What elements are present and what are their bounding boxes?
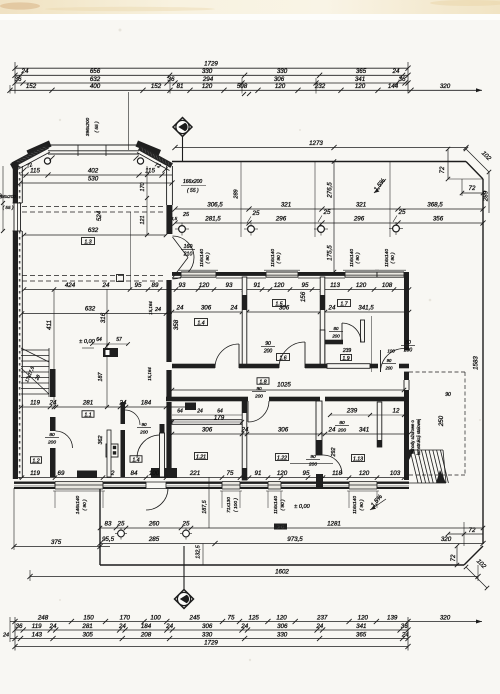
- svg-text:24: 24: [392, 68, 400, 75]
- svg-text:64: 64: [96, 337, 102, 343]
- svg-text:303: 303: [277, 524, 285, 529]
- svg-text:187,5: 187,5: [202, 499, 208, 513]
- svg-text:100: 100: [387, 349, 395, 354]
- svg-text:1.7: 1.7: [340, 301, 348, 307]
- svg-text:64: 64: [177, 409, 183, 415]
- svg-text:144: 144: [388, 83, 399, 90]
- svg-text:305: 305: [83, 631, 94, 638]
- svg-text:200: 200: [331, 333, 340, 338]
- svg-text:116x140: 116x140: [384, 249, 390, 267]
- svg-text:24: 24: [49, 623, 57, 630]
- svg-text:( 100 ): ( 100 ): [233, 498, 239, 512]
- svg-text:25: 25: [182, 212, 190, 218]
- svg-text:1.13: 1.13: [353, 456, 363, 462]
- svg-text:25: 25: [182, 520, 190, 527]
- svg-text:1.4: 1.4: [197, 320, 204, 326]
- svg-text:90: 90: [256, 386, 262, 391]
- svg-text:1.5: 1.5: [275, 301, 282, 307]
- svg-text:90: 90: [141, 422, 147, 427]
- svg-text:120: 120: [199, 282, 210, 289]
- svg-text:36: 36: [0, 193, 4, 199]
- svg-text:69: 69: [58, 470, 65, 477]
- svg-text:530: 530: [88, 176, 99, 183]
- svg-text:362: 362: [98, 436, 104, 445]
- svg-text:365: 365: [356, 631, 367, 638]
- svg-text:294: 294: [202, 76, 214, 83]
- svg-text:120: 120: [277, 470, 288, 477]
- svg-text:200: 200: [139, 429, 148, 434]
- svg-text:( 55 ): ( 55 ): [94, 121, 100, 133]
- svg-text:116x140: 116x140: [349, 249, 355, 267]
- svg-text:306,5: 306,5: [207, 201, 223, 208]
- svg-text:330: 330: [202, 631, 213, 638]
- svg-text:81: 81: [177, 83, 184, 90]
- svg-text:( 90 ): ( 90 ): [205, 252, 211, 264]
- svg-text:365: 365: [356, 68, 367, 75]
- svg-text:71x130: 71x130: [226, 497, 232, 513]
- svg-text:95: 95: [303, 470, 310, 477]
- svg-text:24: 24: [230, 304, 238, 311]
- svg-text:116x140: 116x140: [273, 496, 279, 514]
- svg-text:24: 24: [328, 426, 336, 433]
- svg-text:24: 24: [102, 282, 110, 289]
- svg-text:80: 80: [405, 340, 411, 346]
- svg-text:200: 200: [385, 365, 394, 370]
- svg-text:320: 320: [441, 536, 452, 543]
- svg-text:90: 90: [265, 341, 271, 347]
- svg-text:139: 139: [387, 614, 398, 621]
- svg-text:320: 320: [440, 83, 451, 90]
- svg-text:24: 24: [154, 307, 161, 313]
- svg-text:120: 120: [358, 614, 369, 621]
- svg-text:120: 120: [276, 614, 287, 621]
- svg-text:1583: 1583: [473, 356, 480, 370]
- svg-text:108: 108: [382, 282, 393, 289]
- svg-text:90: 90: [387, 358, 392, 363]
- svg-text:132,5: 132,5: [196, 544, 202, 558]
- svg-text:119: 119: [30, 399, 40, 406]
- svg-text:330: 330: [277, 631, 288, 638]
- svg-text:72: 72: [469, 185, 476, 192]
- svg-text:306: 306: [201, 304, 212, 311]
- svg-text:24: 24: [165, 623, 173, 630]
- svg-text:321: 321: [281, 201, 291, 208]
- svg-text:84: 84: [131, 470, 138, 477]
- svg-text:1.21: 1.21: [196, 454, 206, 460]
- svg-text:25: 25: [398, 209, 406, 216]
- svg-text:1.3: 1.3: [84, 239, 91, 245]
- svg-text:260: 260: [148, 520, 160, 527]
- svg-text:396x200: 396x200: [85, 117, 91, 136]
- svg-text:296: 296: [275, 215, 287, 222]
- svg-text:296: 296: [353, 215, 365, 222]
- svg-text:24: 24: [2, 632, 9, 638]
- svg-text:72: 72: [450, 554, 457, 561]
- svg-text:80: 80: [334, 326, 339, 331]
- svg-text:57: 57: [116, 337, 122, 343]
- svg-text:306: 306: [278, 426, 289, 433]
- svg-text:239: 239: [346, 408, 358, 415]
- svg-text:25: 25: [117, 520, 125, 527]
- svg-text:24: 24: [21, 68, 29, 75]
- svg-text:91: 91: [255, 470, 262, 477]
- svg-text:1.22: 1.22: [277, 455, 287, 461]
- svg-text:184: 184: [141, 623, 152, 630]
- svg-text:250: 250: [438, 415, 445, 427]
- svg-text:276,5: 276,5: [327, 182, 334, 199]
- svg-text:116x140: 116x140: [270, 249, 276, 267]
- svg-text:119: 119: [30, 470, 40, 477]
- svg-text:24: 24: [49, 399, 57, 406]
- svg-text:150: 150: [83, 614, 94, 621]
- svg-text:( 90 ): ( 90 ): [355, 252, 361, 264]
- svg-text:330: 330: [277, 68, 288, 75]
- svg-text:24: 24: [118, 623, 126, 630]
- svg-text:232: 232: [314, 83, 326, 90]
- svg-text:1729: 1729: [204, 639, 218, 646]
- svg-text:118: 118: [332, 470, 342, 477]
- svg-text:281: 281: [81, 623, 92, 630]
- svg-text:316: 316: [100, 312, 107, 323]
- svg-text:632: 632: [85, 306, 96, 313]
- svg-text:306: 306: [274, 76, 285, 83]
- svg-text:90: 90: [445, 392, 451, 398]
- svg-text:973,5: 973,5: [287, 536, 303, 543]
- svg-text:375: 375: [51, 539, 62, 546]
- svg-text:156: 156: [300, 291, 307, 302]
- svg-text:91: 91: [254, 282, 261, 289]
- svg-text:632: 632: [88, 227, 99, 234]
- svg-text:36: 36: [15, 76, 22, 83]
- svg-text:36: 36: [401, 623, 408, 630]
- svg-text:341: 341: [356, 623, 366, 630]
- svg-text:221: 221: [189, 470, 200, 477]
- svg-text:24: 24: [328, 304, 336, 311]
- svg-text:93: 93: [179, 282, 186, 289]
- svg-text:103: 103: [390, 470, 401, 477]
- svg-text:400: 400: [90, 83, 101, 90]
- svg-text:160: 160: [184, 244, 193, 250]
- svg-text:292: 292: [331, 448, 337, 458]
- svg-text:95: 95: [302, 282, 309, 289]
- svg-text:120: 120: [359, 470, 370, 477]
- svg-text:1.8: 1.8: [259, 379, 266, 385]
- svg-text:170: 170: [120, 614, 131, 621]
- svg-text:1729: 1729: [204, 61, 218, 68]
- svg-text:143: 143: [32, 631, 43, 638]
- svg-text:100: 100: [150, 614, 161, 621]
- svg-text:115: 115: [145, 168, 155, 175]
- svg-text:116x140: 116x140: [352, 496, 358, 514]
- svg-text:358: 358: [173, 319, 180, 330]
- svg-text:208: 208: [140, 631, 152, 638]
- svg-text:( 90 ): ( 90 ): [390, 252, 396, 264]
- svg-text:95,5: 95,5: [102, 536, 115, 543]
- svg-text:( 55 ): ( 55 ): [187, 188, 199, 194]
- svg-text:285: 285: [148, 536, 160, 543]
- svg-text:90: 90: [310, 454, 316, 460]
- svg-text:120: 120: [275, 83, 286, 90]
- svg-text:200: 200: [254, 393, 263, 398]
- svg-text:36: 36: [16, 623, 23, 630]
- svg-text:411: 411: [46, 320, 53, 330]
- svg-text:24: 24: [240, 623, 248, 630]
- svg-text:25: 25: [252, 210, 260, 217]
- svg-text:15,164: 15,164: [148, 301, 153, 315]
- svg-text:152: 152: [151, 83, 162, 90]
- svg-text:166x200: 166x200: [183, 179, 202, 185]
- svg-text:200: 200: [337, 427, 346, 433]
- svg-text:1.2: 1.2: [32, 458, 39, 464]
- svg-text:( 55 ): ( 55 ): [3, 205, 14, 210]
- svg-text:24: 24: [176, 304, 184, 311]
- svg-text:184: 184: [141, 399, 152, 406]
- svg-text:524: 524: [96, 210, 103, 221]
- svg-text:12: 12: [393, 408, 400, 415]
- svg-text:321: 321: [356, 201, 366, 208]
- svg-text:25: 25: [323, 209, 331, 216]
- svg-text:289: 289: [483, 190, 490, 202]
- svg-text:306: 306: [277, 623, 288, 630]
- svg-text:402: 402: [88, 168, 99, 175]
- svg-text:239: 239: [342, 348, 352, 354]
- svg-text:632: 632: [90, 76, 101, 83]
- svg-text:120: 120: [274, 282, 285, 289]
- svg-text:281,5: 281,5: [204, 215, 221, 222]
- svg-text:1.6: 1.6: [279, 355, 286, 361]
- svg-text:306: 306: [202, 623, 213, 630]
- svg-text:341: 341: [355, 76, 365, 83]
- svg-text:83: 83: [105, 520, 112, 527]
- svg-text:89: 89: [152, 282, 159, 289]
- svg-text:146x140: 146x140: [75, 495, 81, 514]
- svg-text:36: 36: [399, 76, 406, 83]
- svg-text:341,5: 341,5: [358, 304, 374, 311]
- svg-text:245: 245: [189, 614, 201, 621]
- svg-text:1.9: 1.9: [342, 356, 349, 362]
- svg-text:368,5: 368,5: [427, 201, 443, 208]
- svg-text:330: 330: [202, 68, 213, 75]
- svg-text:120: 120: [202, 83, 213, 90]
- svg-text:200: 200: [263, 348, 273, 354]
- svg-text:( 90 ): ( 90 ): [280, 499, 286, 511]
- svg-text:424: 424: [65, 282, 76, 289]
- svg-text:200: 200: [308, 461, 317, 467]
- svg-text:170: 170: [140, 183, 146, 192]
- svg-text:187: 187: [98, 372, 104, 382]
- svg-text:115: 115: [30, 168, 40, 175]
- svg-text:72: 72: [469, 527, 476, 534]
- svg-text:75: 75: [227, 470, 234, 477]
- svg-text:± 0,00: ± 0,00: [294, 504, 310, 510]
- svg-text:113: 113: [330, 282, 340, 289]
- svg-text:95: 95: [135, 282, 142, 289]
- svg-text:15,164: 15,164: [147, 367, 152, 381]
- svg-text:237: 237: [316, 614, 328, 621]
- svg-text:72: 72: [439, 166, 446, 173]
- svg-text:320: 320: [440, 614, 451, 621]
- svg-text:93: 93: [226, 282, 233, 289]
- svg-text:1281: 1281: [327, 520, 341, 527]
- svg-text:179: 179: [214, 415, 225, 422]
- svg-text:1273: 1273: [309, 140, 323, 147]
- svg-text:1.4: 1.4: [132, 457, 139, 463]
- svg-text:schody ażurowe o: schody ażurowe o: [410, 419, 415, 453]
- svg-text:116x140: 116x140: [199, 249, 205, 267]
- svg-text:120: 120: [356, 282, 367, 289]
- svg-text:80: 80: [339, 420, 345, 426]
- svg-text:281: 281: [82, 399, 93, 406]
- svg-text:356: 356: [433, 215, 444, 222]
- svg-text:24: 24: [315, 623, 323, 630]
- svg-text:100: 100: [149, 470, 160, 477]
- svg-text:75: 75: [228, 614, 235, 621]
- svg-text:36: 36: [168, 76, 175, 83]
- svg-text:200: 200: [47, 439, 56, 445]
- svg-text:24: 24: [196, 409, 203, 415]
- svg-text:80: 80: [49, 432, 55, 438]
- svg-text:120: 120: [355, 83, 366, 90]
- svg-text:289: 289: [234, 189, 240, 199]
- svg-text:24: 24: [241, 426, 249, 433]
- svg-text:656: 656: [90, 68, 101, 75]
- svg-text:1025: 1025: [277, 382, 291, 389]
- svg-text:210: 210: [183, 251, 193, 257]
- svg-text:1602: 1602: [275, 569, 289, 576]
- svg-text:200: 200: [403, 347, 413, 353]
- svg-text:152: 152: [26, 83, 37, 90]
- svg-text:119: 119: [32, 623, 42, 630]
- svg-text:175,5: 175,5: [327, 245, 334, 261]
- svg-text:248: 248: [37, 614, 49, 621]
- svg-text:125: 125: [249, 614, 260, 621]
- svg-text:306: 306: [202, 426, 213, 433]
- svg-text:( 90 ): ( 90 ): [359, 499, 365, 511]
- svg-text:1.1: 1.1: [84, 412, 91, 418]
- svg-text:( 90 ): ( 90 ): [276, 252, 282, 264]
- svg-text:121: 121: [140, 216, 146, 225]
- svg-text:( 90 ): ( 90 ): [82, 499, 88, 511]
- svg-text:341: 341: [359, 426, 369, 433]
- svg-text:konstrukcji stalowej: konstrukcji stalowej: [416, 419, 421, 455]
